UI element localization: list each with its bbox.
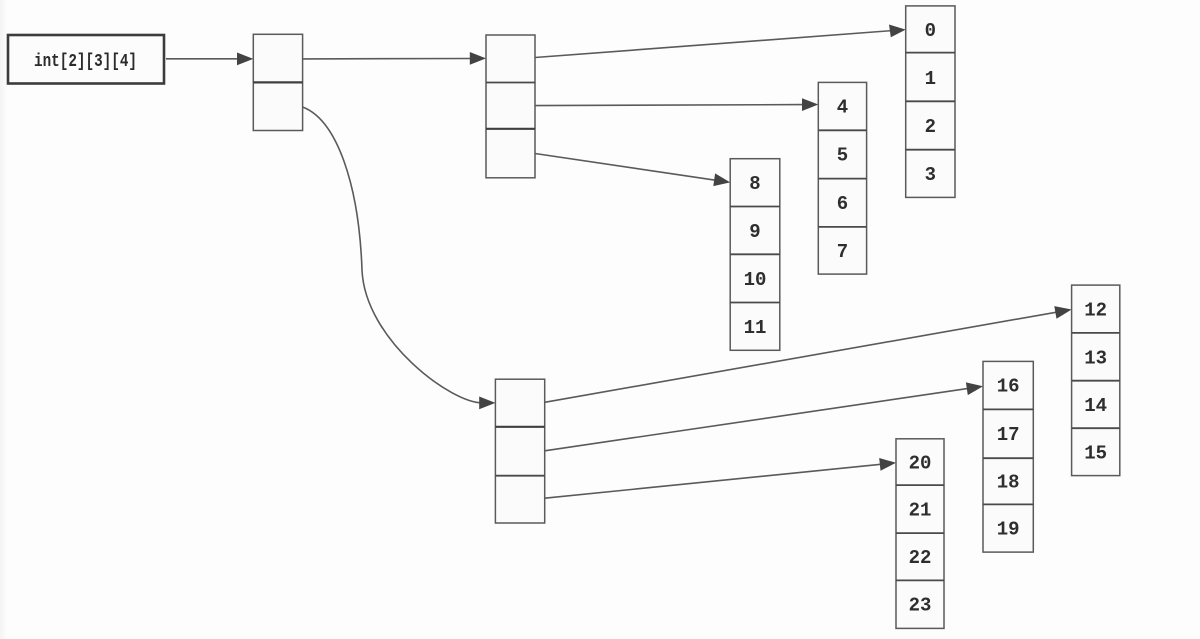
svg-text:21: 21 [909, 500, 932, 522]
wire: B cell1 to array 4-7 [535, 105, 804, 106]
svg-text:10: 10 [744, 269, 767, 291]
svg-text:19: 19 [997, 519, 1020, 541]
wire: B cell0 to array 0-3 [535, 31, 892, 58]
pointer box A (int[2]) [253, 34, 302, 130]
arrowhead into array 4-7 [802, 98, 818, 111]
svg-text:17: 17 [997, 424, 1020, 446]
svg-text:4: 4 [837, 97, 848, 119]
arrowhead into array 20-23 [879, 458, 896, 471]
svg-text:23: 23 [909, 595, 932, 617]
pointer box C (int[3] row 1) [495, 379, 544, 523]
svg-text:7: 7 [837, 241, 848, 263]
wire: box A cell0 to box B [303, 58, 472, 60]
data array 12-15 [1072, 285, 1120, 476]
arrowhead into box C [479, 397, 495, 410]
wire: C cell0 to array 12-15 [545, 312, 1058, 402]
label box int[2][3][4] [8, 35, 164, 84]
svg-text:22: 22 [909, 547, 932, 569]
svg-text:2: 2 [925, 116, 936, 138]
data array 16-19 [983, 361, 1033, 552]
arrowhead into array 8-11 [713, 173, 730, 186]
data array 20-23 [896, 439, 944, 629]
svg-text:5: 5 [837, 145, 848, 167]
svg-text:11: 11 [744, 317, 767, 339]
svg-text:6: 6 [837, 193, 848, 215]
svg-text:18: 18 [997, 472, 1020, 494]
wire: C cell1 to array 16-19 [545, 388, 969, 451]
svg-text:12: 12 [1084, 300, 1107, 322]
wire: curved, box A cell1 to box C [303, 107, 483, 403]
data array 4-7 [818, 82, 866, 274]
svg-text:1: 1 [925, 68, 936, 90]
data array 0-3 [906, 6, 955, 198]
svg-text:14: 14 [1084, 395, 1107, 417]
wire: B cell2 to array 8-11 [535, 154, 717, 181]
arrowhead into array 12-15 [1054, 306, 1071, 319]
svg-text:int[2][3][4]: int[2][3][4] [34, 52, 137, 72]
arrowhead into array 0-3 [889, 25, 906, 38]
wire: label box to pointer box A [166, 58, 240, 60]
svg-text:13: 13 [1084, 347, 1107, 369]
svg-text:9: 9 [749, 221, 760, 243]
svg-text:3: 3 [925, 164, 936, 186]
svg-text:15: 15 [1084, 442, 1107, 464]
data array 8-11 [730, 159, 780, 351]
svg-text:0: 0 [925, 20, 936, 42]
svg-text:20: 20 [909, 453, 932, 475]
arrowhead into array 16-19 [966, 382, 983, 395]
svg-text:8: 8 [749, 173, 760, 195]
pointer box B (int[3] row 0) [486, 35, 535, 178]
arrowhead into box A [237, 53, 253, 66]
arrowhead into box B [470, 52, 486, 65]
svg-text:16: 16 [997, 376, 1020, 398]
wire: C cell2 to array 20-23 [545, 464, 882, 498]
